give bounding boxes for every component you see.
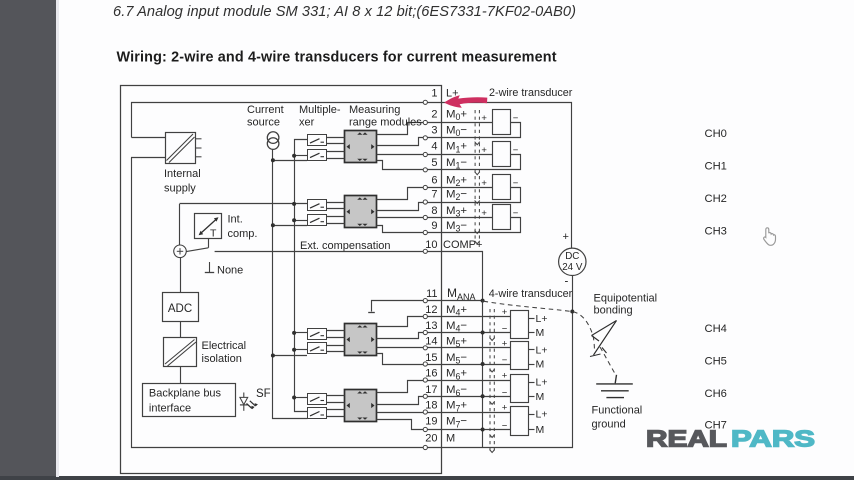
svg-text:CH6: CH6 <box>705 388 727 400</box>
svg-text:Multiple-: Multiple- <box>299 104 341 116</box>
svg-text:+: + <box>502 307 508 318</box>
junction M bus pin 15 <box>481 362 485 366</box>
wire current-source bus 2 <box>295 140 308 412</box>
svg-text:Electrical: Electrical <box>202 340 247 352</box>
svg-text:CH1: CH1 <box>705 160 727 172</box>
wire switch S3a to module U3 <box>326 330 345 332</box>
wire switch S3b to module U3 <box>326 345 345 347</box>
node pin 2 <box>423 120 427 124</box>
junction <box>271 354 275 358</box>
wire node to ADC <box>180 258 182 293</box>
junction <box>292 396 296 400</box>
node pin 18 <box>423 410 427 414</box>
wire terminal 16 to transducer B6 <box>441 380 511 382</box>
svg-text:-: - <box>565 276 569 288</box>
svg-text:9: 9 <box>431 220 437 232</box>
svg-text:16: 16 <box>425 368 437 380</box>
wire terminal 6 to transducer B2 <box>441 187 492 189</box>
wire transducer B0 return to terminal 3 <box>442 123 521 138</box>
svg-text:7: 7 <box>431 188 437 200</box>
wire switch S4b to module U4 <box>326 409 345 411</box>
svg-text:SF: SF <box>256 388 271 400</box>
junction <box>292 154 296 158</box>
node pin 20 <box>423 445 427 449</box>
wire compensation to mux <box>180 203 308 205</box>
wire module U2 to terminal 9 <box>377 226 442 233</box>
svg-text:Measuring: Measuring <box>349 104 400 116</box>
electrical isolation X2 <box>164 338 197 367</box>
stub M transducer B5 <box>528 364 535 366</box>
svg-text:source: source <box>247 117 280 129</box>
shield arrow <box>490 369 495 372</box>
wire node to comp rail <box>179 204 181 245</box>
svg-text:+: + <box>502 338 508 349</box>
wire module U3 to terminal 13 <box>377 333 442 339</box>
svg-text:−: − <box>502 355 508 366</box>
svg-text:−: − <box>502 421 508 432</box>
2-wire transducer B0 <box>493 110 511 135</box>
svg-text:M: M <box>536 359 545 371</box>
svg-text:13: 13 <box>425 320 437 332</box>
wire M rail (terminal 20) <box>132 158 442 448</box>
wire MANA external <box>441 300 483 302</box>
SF LED D1 <box>240 393 258 411</box>
wire analog ground bus <box>482 301 484 448</box>
junction bus2/comp <box>292 202 296 206</box>
stub L+ transducer B6 <box>528 382 535 384</box>
svg-text:12: 12 <box>425 304 437 316</box>
svg-text:Internal: Internal <box>164 168 201 180</box>
wire supply return to M <box>131 157 165 159</box>
svg-text:3: 3 <box>431 124 437 136</box>
junction <box>292 218 296 222</box>
node pin 15 <box>423 362 427 366</box>
wire bus branch 7 <box>273 355 307 357</box>
svg-text:isolation: isolation <box>202 353 242 365</box>
annotation arrow (red) <box>444 95 487 108</box>
dashed bonding line MANA to ground <box>484 301 595 350</box>
equipotential bonding arrow <box>590 321 617 357</box>
node pin 9 <box>423 230 427 234</box>
svg-text:8: 8 <box>431 205 437 217</box>
svg-text:11: 11 <box>426 288 437 300</box>
wire bus branch 2 <box>294 155 307 157</box>
node pin 16 <box>423 378 427 382</box>
svg-text:6.7 Analog input module SM 331: 6.7 Analog input module SM 331; AI 8 x 1… <box>113 4 576 20</box>
none contact <box>209 262 211 273</box>
junction <box>292 348 296 352</box>
wire L+ rail (terminal 1) <box>132 103 442 138</box>
junction dashed/return <box>570 310 574 314</box>
int. compensation sensor T <box>195 214 222 240</box>
junction M bus pin 17 <box>481 394 485 398</box>
wire MANA (terminal 11) <box>372 301 442 312</box>
wire bus branch 4 <box>273 225 307 227</box>
svg-text:M: M <box>446 433 455 445</box>
wire terminal 8 to transducer B3 <box>441 217 492 219</box>
junction M bus pin 19 <box>481 428 485 432</box>
svg-text:M: M <box>536 327 545 339</box>
svg-text:ADC: ADC <box>168 303 192 315</box>
wire module U4 to terminal 17 <box>377 397 442 405</box>
wire M return from DC source <box>442 276 573 448</box>
junction <box>271 158 275 162</box>
multiplexer switch S2b <box>308 215 327 226</box>
svg-text:Current: Current <box>247 104 284 116</box>
wire bus branch 5 <box>294 332 307 334</box>
4-wire transducer B6 <box>511 375 529 403</box>
wire bus branch 1 <box>273 160 307 162</box>
svg-text:xer: xer <box>299 117 315 129</box>
node pin 3 <box>423 136 427 140</box>
svg-text:Functional: Functional <box>592 405 643 417</box>
junction <box>292 331 296 335</box>
node pin 8 <box>423 215 427 219</box>
wire switch S4a to module U4 <box>326 395 345 397</box>
internal supply converter X1 <box>166 133 202 164</box>
svg-text:17: 17 <box>425 384 437 396</box>
wire module U3 to terminal 15 <box>377 354 442 365</box>
wire bus branch 6 <box>294 349 307 351</box>
node pin 1 <box>423 100 427 104</box>
wire terminal 2 to transducer B0 <box>441 122 492 124</box>
svg-text:18: 18 <box>425 400 437 412</box>
node pin 19 <box>423 427 427 431</box>
module boundary box <box>121 86 442 474</box>
ADC U5 <box>163 293 199 322</box>
wire current-source bus 1 <box>273 150 308 419</box>
current source symbol <box>267 132 279 144</box>
multiplexer switch S2a <box>308 200 327 211</box>
svg-text:bonding: bonding <box>594 304 633 316</box>
wire isolation to backplane <box>180 367 182 384</box>
shield arrow <box>490 450 495 453</box>
node pin 12 <box>423 314 427 318</box>
wire module U4 to terminal 19 <box>377 420 442 430</box>
svg-text:CH4: CH4 <box>705 323 727 335</box>
multiplexer switch S3b <box>308 343 327 354</box>
4-wire transducer B5 <box>511 342 529 370</box>
svg-text:PARS: PARS <box>731 426 815 452</box>
svg-text:6: 6 <box>431 174 437 186</box>
wire module U3 to terminal 12 <box>377 317 442 327</box>
cable shield dashes (2-wire group) <box>475 110 479 242</box>
svg-text:10: 10 <box>425 239 437 251</box>
shield arrow <box>490 435 495 438</box>
node pin 13 <box>423 330 427 334</box>
wire COMP+ (terminal 10) <box>215 251 441 253</box>
2-wire transducer B1 <box>493 142 511 167</box>
svg-text:Backplane bus: Backplane bus <box>149 388 222 400</box>
wire module U2 to terminal 6 <box>377 188 442 200</box>
svg-text:1: 1 <box>431 87 437 99</box>
multiplexer switch S1a <box>308 135 327 146</box>
shield arrow <box>490 338 495 341</box>
wire supply input from L+ <box>132 137 166 139</box>
node pin 14 <box>423 346 427 350</box>
svg-text:Int.: Int. <box>228 214 243 226</box>
wire T-box stub <box>208 239 210 248</box>
wire L+ to DC supply <box>442 103 572 249</box>
stub M transducer B7 <box>528 429 535 431</box>
2-wire transducer B2 <box>493 175 511 200</box>
shield arrow <box>475 172 480 175</box>
svg-text:19: 19 <box>425 416 437 428</box>
wire module U1 to terminal 5 <box>377 161 442 170</box>
svg-text:Wiring: 2-wire and 4-wire tran: Wiring: 2-wire and 4-wire transducers fo… <box>117 50 557 66</box>
svg-text:14: 14 <box>425 336 437 348</box>
multiplexer switch S1b <box>308 150 327 161</box>
svg-text:CH2: CH2 <box>705 193 727 205</box>
svg-text:−: − <box>502 324 508 335</box>
svg-text:L+: L+ <box>536 409 548 421</box>
shield arrow <box>490 401 495 404</box>
svg-text:M: M <box>536 391 545 403</box>
shield arrow <box>475 231 480 234</box>
wire module U1 to terminal 2 <box>377 123 442 135</box>
wire module U1 to terminal 3 <box>377 138 442 146</box>
4-wire transducer B4 <box>511 311 529 339</box>
wire ADC to isolation <box>180 322 182 338</box>
junction M bus pin 13 <box>481 331 485 335</box>
svg-text:None: None <box>217 265 243 277</box>
multiplexer switch S3a <box>308 329 327 340</box>
measuring range module U2 <box>345 196 377 228</box>
svg-text:+: + <box>481 178 487 189</box>
svg-text:+: + <box>502 371 508 382</box>
svg-text:+: + <box>481 145 487 156</box>
svg-text:2: 2 <box>431 108 437 120</box>
measuring range module U3 <box>345 324 377 356</box>
wire switch S2b to module U2 <box>326 216 345 218</box>
node pin 11 <box>423 299 427 303</box>
svg-text:interface: interface <box>149 403 191 415</box>
svg-text:L+: L+ <box>536 344 548 356</box>
wire module U3 to terminal 14 <box>377 347 442 349</box>
wire terminal 15 to transducer B5 <box>441 364 511 366</box>
node pin 6 <box>423 185 427 189</box>
wire bus branch 8 <box>294 397 307 399</box>
wire module U2 to terminal 7 <box>377 203 442 211</box>
node pin 10 <box>423 249 427 253</box>
cable shield dashes (4-wire group) <box>490 309 494 451</box>
wire transducer B3 return to terminal 9 <box>442 218 521 233</box>
svg-text:range modules: range modules <box>349 117 422 129</box>
svg-text:L+: L+ <box>536 313 548 325</box>
svg-text:2-wire transducer: 2-wire transducer <box>489 87 573 99</box>
svg-text:DC: DC <box>565 251 579 262</box>
svg-text:+: + <box>502 403 508 414</box>
stub L+ transducer B4 <box>528 318 535 320</box>
switch arm comp select <box>186 248 208 252</box>
DC 24V source G1 <box>559 248 586 275</box>
wire transducer B2 return to terminal 7 <box>442 188 521 203</box>
dashed bonding line to functional ground <box>600 347 616 375</box>
svg-text:supply: supply <box>164 183 196 195</box>
svg-text:COMP+: COMP+ <box>443 239 482 251</box>
svg-text:24 V: 24 V <box>562 262 583 273</box>
stub M transducer B4 <box>528 332 535 334</box>
wire COMP+ external loop <box>442 252 483 301</box>
svg-text:T: T <box>210 228 217 240</box>
svg-text:4-wire transducer: 4-wire transducer <box>489 288 573 300</box>
4-wire transducer B7 <box>511 407 529 436</box>
shield arrow <box>475 241 480 244</box>
wire bus branch 3 <box>294 220 307 222</box>
wire transducer B1 return to terminal 5 <box>442 155 521 170</box>
node pin 17 <box>423 394 427 398</box>
wire module U4 to terminal 18 <box>377 412 442 414</box>
svg-text:ground: ground <box>592 418 626 430</box>
svg-text:M: M <box>536 424 545 436</box>
wire terminal 4 to transducer B1 <box>441 154 492 156</box>
svg-text:20: 20 <box>425 433 437 445</box>
wire module U2 to terminal 8 <box>377 217 442 219</box>
measuring range module U1 <box>345 131 377 163</box>
svg-text:+: + <box>481 208 487 219</box>
wire terminal 19 to transducer B7 <box>441 429 511 431</box>
shield arrow <box>475 142 480 145</box>
stub L+ transducer B7 <box>528 414 535 416</box>
svg-text:REAL: REAL <box>646 426 727 452</box>
svg-text:L+: L+ <box>536 377 548 389</box>
2-wire transducer B3 <box>493 205 511 230</box>
svg-text:+: + <box>563 231 569 243</box>
svg-text:Ext. compensation: Ext. compensation <box>300 240 391 252</box>
svg-text:Equipotential: Equipotential <box>594 292 658 304</box>
svg-text:4: 4 <box>431 141 437 153</box>
svg-text:comp.: comp. <box>228 228 258 240</box>
stub M transducer B6 <box>528 396 535 398</box>
backplane bus interface U6 <box>143 384 236 417</box>
node pin 7 <box>423 200 427 204</box>
wire terminal 12 to transducer B4 <box>441 316 511 318</box>
wire terminal 13 to transducer B4 <box>441 332 511 334</box>
svg-text:CH3: CH3 <box>705 225 727 237</box>
svg-text:5: 5 <box>431 157 437 169</box>
wire switch S1b to module U1 <box>326 151 345 153</box>
multiplexer switch S4b <box>308 408 327 419</box>
svg-text:CH0: CH0 <box>705 128 727 140</box>
node pin 5 <box>423 168 427 172</box>
junction <box>271 223 275 227</box>
summing node + <box>174 245 187 258</box>
wire switch S2a to module U2 <box>326 202 345 204</box>
wire terminal 17 to transducer B6 <box>441 396 511 398</box>
svg-text:+: + <box>481 113 487 124</box>
svg-text:CH5: CH5 <box>705 355 727 367</box>
measuring range module U4 <box>345 390 377 422</box>
shield arrow <box>475 201 480 204</box>
wire terminal 18 to transducer B7 <box>441 412 511 414</box>
functional ground <box>596 375 633 398</box>
mouse cursor (hand) <box>764 228 776 245</box>
wire module U1 to terminal 4 <box>377 154 442 156</box>
node pin 4 <box>423 152 427 156</box>
multiplexer switch S4a <box>308 394 327 405</box>
wire terminal 14 to transducer B5 <box>441 347 511 349</box>
wire switch S1a to module U1 <box>326 137 345 139</box>
wire module U4 to terminal 16 <box>377 381 442 393</box>
stub L+ transducer B5 <box>528 349 535 351</box>
junction MANA bus <box>481 299 485 303</box>
svg-text:−: − <box>502 387 508 398</box>
